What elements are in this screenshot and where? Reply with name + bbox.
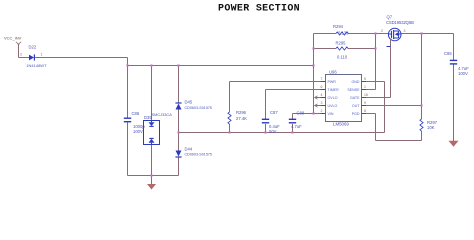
svg-text:9: 9 (364, 101, 366, 105)
svg-text:2: 2 (321, 109, 323, 113)
svg-text:R296: R296 (236, 110, 247, 115)
svg-text:GATE: GATE (350, 96, 360, 100)
svg-text:8: 8 (364, 109, 366, 113)
svg-text:D45: D45 (185, 100, 193, 105)
svg-text:C87: C87 (270, 110, 278, 115)
svg-text:1: 1 (364, 85, 366, 89)
svg-text:C85: C85 (444, 51, 452, 56)
svg-text:R295: R295 (336, 41, 347, 46)
svg-text:50V: 50V (269, 129, 277, 134)
svg-text:CSD19532Q5B: CSD19532Q5B (386, 20, 414, 25)
svg-text:6: 6 (321, 85, 323, 89)
svg-text:1: 1 (41, 53, 43, 57)
svg-text:OUT: OUT (352, 104, 360, 108)
svg-text:R294: R294 (333, 24, 344, 29)
svg-text:C86: C86 (132, 111, 140, 116)
svg-text:D22: D22 (29, 44, 37, 49)
svg-text:LM5069: LM5069 (333, 121, 349, 126)
svg-text:4.7uF: 4.7uF (291, 124, 302, 129)
svg-text:CD0603-S01575: CD0603-S01575 (185, 106, 212, 110)
svg-text:2: 2 (381, 29, 383, 33)
svg-text:SMCJ33CA: SMCJ33CA (152, 112, 173, 117)
svg-text:CD0603-S01575: CD0603-S01575 (185, 153, 212, 157)
svg-text:1N4148WT: 1N4148WT (26, 63, 47, 68)
svg-text:5: 5 (364, 77, 366, 81)
svg-text:27.4K: 27.4K (236, 116, 247, 121)
svg-text:2: 2 (20, 53, 22, 57)
svg-text:UVLO: UVLO (328, 104, 338, 108)
svg-text:C88: C88 (297, 111, 305, 116)
svg-text:OVLO: OVLO (328, 96, 338, 100)
svg-text:3: 3 (321, 101, 323, 105)
svg-text:SENSE: SENSE (347, 88, 360, 92)
svg-text:0.110: 0.110 (337, 55, 348, 60)
svg-text:PGD: PGD (352, 112, 360, 116)
svg-text:10K: 10K (427, 125, 435, 130)
svg-text:7: 7 (321, 77, 323, 81)
svg-text:3: 3 (404, 29, 406, 33)
svg-text:4: 4 (321, 93, 323, 97)
svg-text:GND: GND (352, 80, 360, 84)
svg-text:POWER SECTION: POWER SECTION (218, 4, 300, 15)
svg-text:U96: U96 (329, 69, 337, 74)
svg-text:0.130: 0.130 (338, 30, 349, 35)
svg-text:Q7: Q7 (387, 15, 393, 20)
svg-text:PWR: PWR (328, 80, 337, 84)
svg-text:100V: 100V (133, 129, 143, 134)
svg-text:VIN: VIN (328, 112, 334, 116)
svg-text:D44: D44 (185, 146, 193, 151)
svg-text:100V: 100V (458, 71, 468, 76)
svg-text:TIMER: TIMER (328, 88, 340, 92)
svg-text:16: 16 (364, 93, 368, 97)
svg-text:VCC_INV: VCC_INV (4, 35, 22, 40)
